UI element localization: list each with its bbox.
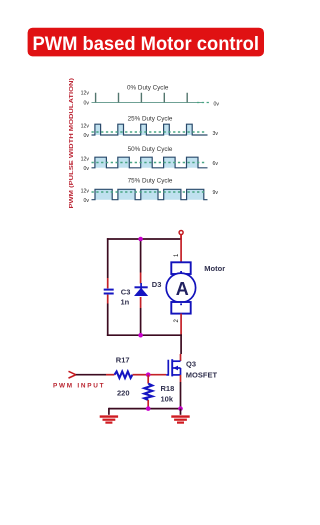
svg-text:10k: 10k — [161, 394, 174, 403]
pin C3 bottom — [107, 295, 109, 304]
svg-text:Motor: Motor — [204, 264, 225, 273]
pin D3 anode — [140, 297, 142, 308]
wire left ground stub — [108, 408, 110, 415]
svg-text:0v: 0v — [84, 198, 90, 204]
pin R18 bottom — [147, 400, 149, 409]
waveform 0% duty — [81, 85, 220, 108]
pin Q3 gate wire — [148, 374, 166, 376]
svg-text:Q3: Q3 — [186, 360, 196, 369]
pin Q3 source — [180, 375, 182, 382]
wire input to R17 — [76, 374, 106, 376]
svg-text:MOSFET: MOSFET — [186, 371, 218, 380]
wire bottom rail of loop — [107, 334, 182, 336]
svg-text:12v: 12v — [81, 91, 90, 97]
svg-text:A: A — [176, 279, 189, 299]
wire top rail — [107, 238, 182, 240]
svg-text:0v: 0v — [84, 166, 90, 172]
svg-text:R17: R17 — [116, 355, 130, 364]
motor M1 — [166, 262, 195, 313]
pin C3 top — [107, 278, 109, 288]
svg-text:9v: 9v — [213, 190, 219, 196]
svg-text:25% Duty Cycle: 25% Duty Cycle — [128, 116, 173, 123]
side label PWM (PULSE WIDTH MODULATION) — [69, 78, 75, 209]
svg-text:3v: 3v — [213, 131, 219, 137]
svg-text:PWM (PULSE WIDTH MODULATION): PWM (PULSE WIDTH MODULATION) — [69, 78, 75, 209]
pin motor 2 — [180, 314, 182, 336]
svg-text:1n: 1n — [121, 298, 130, 307]
wire motor to mosfet — [180, 334, 182, 354]
ground left — [100, 417, 118, 423]
wire source to rail — [180, 382, 182, 409]
wire D3 branch upper — [140, 239, 142, 273]
svg-text:75% Duty Cycle: 75% Duty Cycle — [128, 177, 173, 184]
input terminal PWM — [69, 371, 76, 378]
title banner — [28, 28, 264, 57]
svg-text:0v: 0v — [214, 102, 220, 108]
svg-text:6v: 6v — [213, 161, 219, 167]
svg-text:50% Duty Cycle: 50% Duty Cycle — [128, 146, 173, 153]
pin motor 1 — [180, 235, 182, 263]
svg-text:0v: 0v — [84, 100, 90, 106]
svg-text:0% Duty Cycle: 0% Duty Cycle — [127, 85, 169, 92]
svg-text:12v: 12v — [81, 188, 90, 194]
pin R17 right — [133, 374, 149, 376]
capacitor C3 — [104, 290, 114, 294]
transistor Q3 — [166, 359, 180, 376]
junction source ground — [178, 406, 183, 411]
waveform 75% duty — [81, 177, 219, 204]
terminal VCC — [179, 231, 183, 240]
junction gate R18 — [146, 372, 151, 377]
svg-text:220: 220 — [117, 388, 130, 397]
resistor R17 — [115, 372, 133, 379]
svg-text:0v: 0v — [84, 133, 90, 139]
diode D3 — [135, 287, 148, 295]
pin R18 top — [147, 375, 149, 384]
pin R17 left — [106, 374, 115, 376]
wire right ground stub — [180, 409, 182, 415]
junction top rail D3 — [138, 237, 143, 242]
wire D3 branch lower — [140, 308, 142, 336]
resistor R18 — [144, 384, 152, 400]
junction bottom rail D3 — [138, 333, 143, 338]
pin D3 cathode — [140, 273, 142, 284]
waveform 50% duty — [81, 146, 219, 172]
svg-text:PWM based Motor control: PWM based Motor control — [33, 33, 260, 55]
wire ground rail — [109, 408, 181, 410]
svg-text:C3: C3 — [121, 288, 131, 297]
pin Q3 drain — [180, 354, 182, 361]
junction R18 ground — [146, 406, 151, 411]
wire C3 branch upper — [107, 238, 109, 278]
svg-text:12v: 12v — [81, 124, 90, 130]
svg-text:PWM INPUT: PWM INPUT — [53, 383, 105, 390]
waveform 25% duty — [81, 116, 219, 140]
svg-text:R18: R18 — [161, 384, 175, 393]
svg-text:D3: D3 — [152, 280, 162, 289]
svg-text:12v: 12v — [81, 156, 90, 162]
wire C3 branch lower — [107, 304, 109, 337]
ground right — [171, 417, 189, 423]
